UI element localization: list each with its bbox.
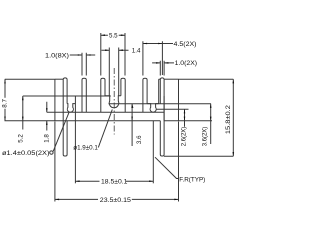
dimension 2.6(2X) (hole center height) (182, 109, 188, 146)
left edge wall (54, 79, 56, 121)
left keyhole slot shoulders and droplet hole (phi 1.4) (67, 104, 75, 113)
dimension 5.5 (top) (101, 32, 125, 75)
dimension 8.7 (left height) (2, 79, 9, 121)
svg-text:1.4: 1.4 (132, 48, 141, 55)
heatsink body outline (55, 78, 179, 183)
svg-text:2.6(2X): 2.6(2X) (182, 127, 188, 147)
svg-text:3.6: 3.6 (136, 135, 143, 144)
dimension 3.6(2X) (right slot depth) (203, 104, 212, 147)
svg-text:15.8±0.2: 15.8±0.2 (225, 104, 232, 134)
dimension 1.8 (left, hole bottom to base bottom) (43, 102, 50, 143)
svg-text:F.R(TYP): F.R(TYP) (179, 176, 205, 183)
centerline (dash-dot) (113, 68, 115, 135)
fin F1 (left pin strip top) (63, 78, 67, 121)
top flat left (55, 78, 63, 80)
fin F4 (121, 78, 125, 112)
right keyhole slot shoulders and droplet hole (phi 1.4) (147, 104, 159, 113)
center keyhole shoulders, neck and droplet hole (phi 1.9) (105, 96, 121, 108)
svg-text:4.5(2X): 4.5(2X) (174, 42, 197, 48)
label phi 1.9±0.1 with leader (73, 110, 112, 152)
slot bottom level line (3.6 ref) (109, 103, 212, 105)
slot bottom / hole tangent line (1.8 ref) (47, 111, 164, 113)
fin F6 (right pin strip) (160, 78, 164, 121)
dimension 5.2 (left, shoulder to base bottom) (17, 96, 24, 143)
svg-text:5.5: 5.5 (109, 32, 118, 39)
hole center line right (2.6 ref) (156, 108, 189, 110)
dimension 1.4 (center slot width) (102, 48, 141, 96)
dimension 23.5±0.15 (overall width) (55, 122, 179, 204)
top flat between keyhole and F6 (159, 78, 161, 80)
pin bottom extension line (15.8 ref) (164, 155, 233, 157)
left solder pin (63, 121, 67, 156)
top flat right (164, 78, 178, 80)
fin F2 (82, 78, 86, 112)
fin F3 (101, 78, 105, 112)
left keyhole slot right wall running down to 18.5 dim (74, 96, 76, 183)
svg-text:8.7: 8.7 (2, 99, 9, 108)
svg-text:18.5±0.1: 18.5±0.1 (101, 178, 128, 185)
svg-text:5.2: 5.2 (17, 134, 24, 143)
dimension 15.8±0.2 (right overall height) (225, 79, 234, 156)
svg-text:1.0(2X): 1.0(2X) (175, 61, 198, 67)
right edge wall (178, 79, 180, 121)
svg-text:ø1.9±0.1: ø1.9±0.1 (73, 144, 98, 151)
fin F5 (143, 78, 147, 112)
label F.R(TYP) with leader (155, 157, 205, 183)
dimension 1.0(2X) (pin fin width) (152, 61, 197, 76)
svg-text:ø1.4±0.05(2X): ø1.4±0.05(2X) (2, 150, 50, 157)
svg-text:1.0(8X): 1.0(8X) (45, 54, 69, 60)
top line extensions (8.7 / 15.8 refs) (5, 78, 234, 80)
right solder pin (160, 96, 164, 156)
dimension 3.6 (center hole depth) (131, 104, 143, 146)
right keyhole slot right wall (158, 79, 160, 103)
svg-text:1.8: 1.8 (43, 134, 50, 143)
label phi 1.4±0.05(2X) with leader (2, 112, 69, 157)
dimension 18.5±0.1 (hole spacing) (75, 121, 153, 186)
base bottom line with extensions (5, 120, 213, 122)
svg-text:3.6(2X): 3.6(2X) (203, 127, 209, 147)
center keyhole shoulder extension line (5.2 ref) (23, 95, 111, 97)
svg-text:23.5±0.15: 23.5±0.15 (100, 197, 132, 204)
dimension 1.0(8X) (fin width) (45, 53, 95, 76)
dimension 4.5(2X) (fin group span right) (143, 41, 197, 75)
